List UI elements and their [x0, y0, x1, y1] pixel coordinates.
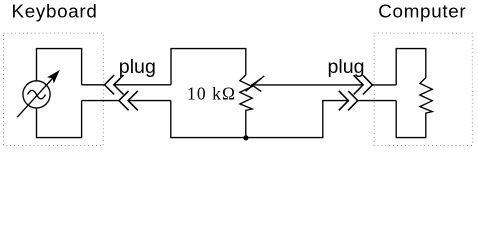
svg-text:10 kΩ: 10 kΩ	[187, 84, 236, 104]
svg-text:Keyboard: Keyboard	[12, 1, 98, 22]
svg-text:plug: plug	[328, 56, 365, 78]
svg-text:Computer: Computer	[378, 1, 466, 22]
svg-text:plug: plug	[119, 56, 156, 78]
